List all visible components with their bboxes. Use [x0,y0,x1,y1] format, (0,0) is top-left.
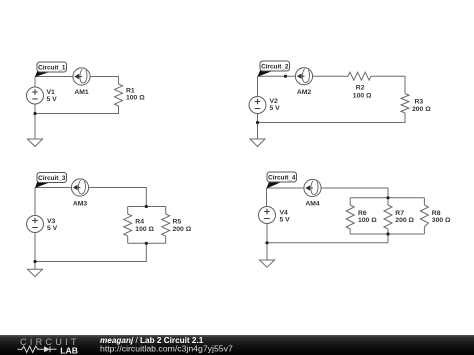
svg-text:300 Ω: 300 Ω [432,217,451,224]
svg-text:200 Ω: 200 Ω [173,226,192,233]
svg-text:LAB: LAB [60,345,78,355]
svg-text:AM2: AM2 [297,89,312,96]
svg-text:100 Ω: 100 Ω [358,217,377,224]
svg-text:Circuit_4: Circuit_4 [268,174,296,181]
svg-text:R3: R3 [415,99,424,106]
svg-text:100 Ω: 100 Ω [135,226,154,233]
svg-text:V2: V2 [270,98,279,105]
svg-text:5 V: 5 V [47,96,58,103]
svg-text:R7: R7 [395,210,404,217]
svg-text:R8: R8 [432,210,441,217]
svg-text:R5: R5 [173,219,182,226]
svg-text:5 V: 5 V [280,217,291,224]
svg-text:100 Ω: 100 Ω [126,95,145,102]
svg-text:200 Ω: 200 Ω [412,106,431,113]
svg-text:Circuit_1: Circuit_1 [38,64,66,71]
svg-text:5 V: 5 V [47,225,58,232]
svg-text:200 Ω: 200 Ω [395,217,414,224]
svg-text:V1: V1 [47,89,56,96]
svg-text:100 Ω: 100 Ω [353,92,372,99]
svg-text:R4: R4 [135,219,144,226]
svg-text:R2: R2 [356,85,365,92]
svg-text:AM4: AM4 [305,200,320,207]
svg-text:R6: R6 [358,210,367,217]
svg-text:http://circuitlab.com/c3jn4g7y: http://circuitlab.com/c3jn4g7yj55v7 [100,343,233,353]
svg-text:Circuit_2: Circuit_2 [261,63,289,70]
svg-text:Circuit_3: Circuit_3 [38,175,66,182]
svg-text:5 V: 5 V [270,105,281,112]
svg-text:R1: R1 [126,88,135,95]
svg-text:V4: V4 [280,209,289,216]
svg-text:AM3: AM3 [73,200,88,207]
svg-text:AM1: AM1 [74,89,89,96]
svg-text:V3: V3 [47,218,56,225]
